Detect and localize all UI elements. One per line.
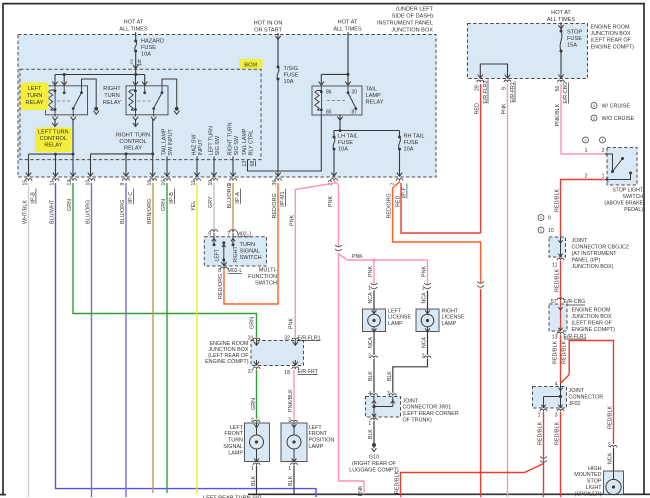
pin 15 on I/P box [25,179,32,181]
svg-text:85: 85 [326,110,332,116]
svg-text:ALL TIMES: ALL TIMES [333,27,362,33]
svg-text:T/SIG: T/SIG [284,66,299,72]
wire RED from pin 29 [480,84,482,233]
svg-text:CONNECTOR JR01: CONNECTOR JR01 [403,405,452,411]
svg-text:JOINT: JOINT [572,238,588,244]
wire: left output bus [29,153,74,155]
pin 36 on I/P box [275,179,282,181]
wire: internal bridge pins 29-9 [480,64,507,79]
svg-text:(LEFT REAR OF: (LEFT REAR OF [591,38,632,44]
svg-text:JUNCTION BOX: JUNCTION BOX [391,28,433,34]
svg-text:G10: G10 [369,455,379,461]
svg-text:HOT AT: HOT AT [124,20,144,26]
svg-text:RED/BLK: RED/BLK [555,269,561,292]
svg-text:HAZARD: HAZARD [141,39,164,45]
junction: joint connector CBGJC2 [538,215,544,221]
svg-text:RED/ORG: RED/ORG [386,193,392,218]
wire PNK/BLK to left front position lamp [293,370,295,420]
lamp: left front position lamp [281,423,307,462]
svg-text:RIGHT: RIGHT [233,246,239,263]
wire relay feed drop x=144.7 [144,75,146,86]
wire: right output bus [91,153,153,155]
svg-text:OF TRUNK): OF TRUNK) [403,418,432,424]
svg-text:ENGINE COMPT): ENGINE COMPT) [591,44,635,50]
svg-text:OR START: OR START [254,28,282,34]
pin 9 on I/P box [123,179,130,181]
svg-text:BLK: BLK [368,371,374,381]
svg-text:10A: 10A [404,146,414,152]
svg-text:TURN: TURN [27,93,43,99]
svg-text:FUSE: FUSE [338,140,353,146]
lamp: left front turn signal lamp [245,423,270,462]
svg-text:HAZ SW: HAZ SW [191,134,197,156]
svg-text:ENGINE ROOM: ENGINE ROOM [591,25,630,31]
wire RED to bottom [480,289,482,497]
svg-text:1: 1 [585,148,588,154]
junction: engine room junction box (top right) [468,24,588,79]
wire relay feed drop x=135.5 [135,75,137,86]
svg-text:PNK: PNK [352,254,363,260]
junction: engine room junction box (front lamps) [251,341,304,366]
svg-text:SIDE OF DASH): SIDE OF DASH) [392,14,433,20]
wire RED/BLK branch to high mounted stop light [561,341,613,445]
wire PNK branch to E/R front box [295,183,336,338]
svg-text:LUGGAGE COMPT): LUGGAGE COMPT) [349,468,399,474]
wire BLK left license [373,359,375,393]
label: LEFT TURN CONTROL RELAY (highlighted) [35,128,72,153]
svg-text:18: 18 [284,370,290,376]
wire bus drop x=73 [72,154,74,177]
svg-text:RED/BLK: RED/BLK [608,406,614,429]
svg-text:13: 13 [242,161,248,167]
svg-text:10A: 10A [141,51,151,57]
switch: turn signal switch box [204,237,266,266]
svg-text:LH TAIL: LH TAIL [338,134,358,140]
svg-text:1: 1 [422,286,425,292]
svg-text:LEFT: LEFT [28,86,42,92]
svg-text:CONTROL: CONTROL [40,136,67,142]
svg-text:2: 2 [422,354,425,360]
svg-text:LEFT TURN: LEFT TURN [208,126,214,156]
wire T/SIG feed [277,33,279,67]
svg-text:1: 1 [538,413,541,419]
svg-text:GRN: GRN [251,398,257,410]
svg-text:YEL: YEL [191,201,197,211]
svg-text:(AT INSTRUMENT: (AT INSTRUMENT [572,251,618,257]
svg-text:LEFT: LEFT [388,308,402,314]
legend cruise [591,103,597,109]
svg-text:BCM: BCM [244,63,257,69]
fuse: HAZARD FUSE 10A [134,40,137,43]
fuse: RH TAIL FUSE 10A [399,131,401,138]
pin 10 on I/P box [164,179,171,181]
svg-text:FUSE: FUSE [404,140,419,146]
svg-text:15A: 15A [567,43,577,49]
wire relay feed drop x=55 [54,75,56,86]
svg-text:RED/BLK: RED/BLK [555,189,561,212]
svg-text:9: 9 [208,231,211,237]
svg-text:LIGHT: LIGHT [586,485,603,491]
svg-text:1: 1 [602,174,605,180]
wire bus drop x=55.5 [55,154,57,177]
svg-text:29: 29 [475,85,481,91]
svg-text:86: 86 [326,90,332,96]
wire BLU/ORG 1 [91,183,93,497]
svg-text:CONNECTOR CBGJC2: CONNECTOR CBGJC2 [572,244,629,250]
svg-text:BLK: BLK [251,475,257,486]
svg-text:8: 8 [218,268,221,274]
svg-text:RELAY: RELAY [44,143,62,149]
svg-text:FUSE: FUSE [284,72,299,78]
svg-text:FRONT: FRONT [309,431,328,437]
relay contact (mid pin) [63,86,65,93]
svg-text:SWITCH: SWITCH [240,255,262,261]
ground G10 [372,443,376,447]
svg-text:ALL TIMES: ALL TIMES [547,17,576,23]
svg-text:BLK: BLK [387,371,393,381]
wire: left relay coil return [54,119,56,127]
wire RED/ORG pin7 [393,182,481,284]
wire GRN to left front turn signal lamp [256,370,258,420]
svg-text:2: 2 [608,443,611,449]
wire BLU/ORG 2 [125,183,127,497]
switch: stop light switch [607,148,637,186]
switch RIGHT contact [232,233,234,245]
svg-text:1: 1 [251,466,254,472]
svg-text:RED/BLK: RED/BLK [553,341,559,364]
svg-text:TAIL LAMP: TAIL LAMP [161,128,167,155]
svg-text:2: 2 [585,174,588,180]
svg-text:ENGINE COMPT): ENGINE COMPT) [572,327,616,333]
svg-text:RIGHT TURN: RIGHT TURN [227,122,233,155]
relay: tail lamp relay [312,86,362,115]
svg-text:HOT AT: HOT AT [551,10,571,16]
svg-text:10A: 10A [284,79,294,85]
wire RED/BLK JF02 pin 1 [543,412,545,497]
svg-text:NCA: NCA [608,453,614,464]
svg-text:GRN: GRN [67,199,73,211]
svg-text:INSTRUMENT PANEL: INSTRUMENT PANEL [377,21,433,27]
svg-text:RIGHT: RIGHT [442,308,459,314]
instrument panel junction box [18,35,436,178]
svg-text:TAIL: TAIL [366,87,377,93]
svg-text:4: 4 [368,391,371,397]
svg-text:SIG SW: SIG SW [215,135,221,155]
svg-text:LAMP: LAMP [309,444,324,450]
svg-text:PANEL (I/P): PANEL (I/P) [572,257,601,263]
svg-text:NCA: NCA [368,337,374,348]
svg-text:FRONT: FRONT [224,431,243,437]
svg-text:RELAY: RELAY [26,100,44,106]
switch LEFT contact [213,233,215,245]
svg-text:LAMP: LAMP [388,321,403,327]
wire BLU/WHT [56,183,317,497]
svg-text:NCA: NCA [422,292,428,303]
svg-text:10: 10 [86,180,92,186]
svg-text:JUNCTION BOX: JUNCTION BOX [572,314,613,320]
label: LEFT TURN RELAY (highlighted) [21,83,49,111]
wire BLK grounds of front lamps [256,466,258,495]
svg-text:(LEFT REAR OF: (LEFT REAR OF [572,321,613,327]
svg-text:PNK: PNK [288,318,294,329]
wire: BCM pin 13 tail lamp relay control [248,115,322,171]
wire bus drop x=28.5 [28,154,30,177]
svg-text:RELAY: RELAY [103,100,121,106]
svg-text:SIGNAL: SIGNAL [240,248,261,254]
svg-text:ALL TIMES: ALL TIMES [119,27,148,33]
wire bus drop x=90.5 [90,154,92,177]
svg-text:(UNDER LEFT: (UNDER LEFT [396,7,434,13]
relay switch arm [161,86,163,93]
pin 16 on I/P box [150,179,157,181]
wire PNK pin22 [334,181,339,247]
wire BCM pin stub x=214 [213,157,215,177]
wire WHT/BLK [28,183,30,497]
svg-text:SWITCH: SWITCH [255,281,277,287]
svg-text:CONNECTOR: CONNECTOR [569,394,604,400]
svg-text:HOT IN ON: HOT IN ON [254,21,283,27]
svg-text:PEDAL): PEDAL) [624,207,643,213]
pins 29 / 9 / 56 [477,80,484,82]
svg-text:12: 12 [67,180,73,186]
svg-text:1: 1 [288,466,291,472]
svg-text:BLK: BLK [368,429,374,439]
svg-text:BLU/ORG: BLU/ORG [227,184,233,208]
svg-text:(LEFT REAR CORNER: (LEFT REAR CORNER [403,411,459,417]
svg-text:RED/BLK: RED/BLK [395,471,401,494]
svg-text:GRN: GRN [250,317,256,329]
BCM (body control module) box [20,69,261,159]
svg-text:RED: RED [475,103,481,114]
wire: right relay coil return [135,119,137,127]
svg-text:7: 7 [227,231,230,237]
svg-text:TURN: TURN [104,93,120,99]
svg-text:GRY: GRY [208,196,214,208]
svg-text:SIGNAL: SIGNAL [223,444,243,450]
relay bottom pins [135,115,137,117]
svg-text:FUSE: FUSE [567,36,582,42]
svg-text:37: 37 [248,369,254,375]
svg-text:BLU/ORG: BLU/ORG [120,200,126,224]
svg-text:2: 2 [602,148,605,154]
wire RED/BLK from stop light switch [561,180,605,241]
wire RED/BLK JF02 pin 3 [560,412,562,497]
svg-text:RED/ORG: RED/ORG [218,274,224,299]
svg-text:HIGH: HIGH [588,466,602,472]
svg-text:GRN: GRN [161,199,167,211]
svg-text:LEFT: LEFT [215,248,221,262]
svg-text:TAIL LAMP: TAIL LAMP [242,128,248,155]
wire: right relay switch output [152,119,154,154]
svg-text:MULTI-: MULTI- [259,268,277,274]
pin 11 on I/P box [194,179,201,181]
svg-text:BLU/WHT: BLU/WHT [50,199,56,224]
svg-text:11: 11 [552,263,557,269]
lamp: left license lamp [363,309,386,332]
svg-text:NCA: NCA [368,292,374,303]
wire BLK right license [393,359,428,393]
svg-text:BLU/ORG: BLU/ORG [86,200,92,224]
svg-text:CONTROL: CONTROL [119,139,146,145]
wire GRN 2 [166,183,168,493]
fuse: STOP FUSE 15A [560,30,563,33]
svg-text:3: 3 [555,413,558,419]
switch common bar [222,241,225,244]
svg-text:PNK: PNK [328,196,334,207]
svg-text:13: 13 [552,335,558,341]
svg-text:1: 1 [368,421,371,427]
svg-text:10A: 10A [338,146,348,152]
svg-text:SWITCH: SWITCH [623,194,644,200]
svg-text:PNK: PNK [422,266,428,277]
svg-text:PNK: PNK [289,215,295,226]
svg-text:32: 32 [284,336,290,342]
svg-text:ENGINE COMPT): ENGINE COMPT) [205,359,249,365]
pin 10 on I/P box [211,179,218,181]
wire tail lamp feed [347,32,349,74]
svg-text:LICENSE: LICENSE [388,315,411,321]
wire RED/BLK to E/R-CBG [560,261,562,301]
svg-text:RIGHT TURN: RIGHT TURN [116,133,150,139]
svg-text:LAMP: LAMP [228,450,243,456]
svg-text:MOUNTED: MOUNTED [574,472,601,478]
fuse: LH TAIL FUSE 10A [333,131,335,138]
svg-text:9: 9 [548,216,551,222]
svg-text:PNK: PNK [358,485,364,496]
svg-text:ENGINE ROOM: ENGINE ROOM [572,308,611,314]
splice on PNK wire [335,245,342,251]
svg-text:BLK: BLK [288,475,294,486]
svg-text:2: 2 [368,354,371,360]
svg-text:STOP: STOP [587,479,602,485]
wire bus drop x=126 [125,154,127,177]
junction: engine room junction box (E/R-CBG) [549,304,567,331]
pin 11 on I/P box [52,179,59,181]
fuse: T/SIG FUSE 10A [277,66,280,69]
relay bottom pins [54,115,56,117]
relay coil [129,90,133,110]
svg-text:TURN: TURN [240,242,256,248]
svg-text:SIG SW: SIG SW [234,135,240,155]
wire hazard feed [135,32,137,41]
svg-text:JUNCTION BOX): JUNCTION BOX) [572,264,614,270]
wire BLU/ORG to switch [232,183,234,232]
wire BCM pin stub x=197 [196,157,198,177]
svg-text:30: 30 [352,90,358,96]
wire: tail relay sw output [339,115,341,131]
wire PNK drop left license [373,260,375,285]
wire fuse to relay bus [135,51,137,75]
wire: left relay switch output [72,119,74,154]
wire PNK from pin 9 [507,84,509,497]
svg-text:(RIGHT REAR OF: (RIGHT REAR OF [352,461,397,467]
svg-text:3: 3 [387,391,390,397]
wire RED/BLK to JF02 pin 4 [560,335,562,383]
svg-text:JF02: JF02 [569,401,581,407]
svg-text:RIGHT: RIGHT [103,86,121,92]
wire PNK to license lamps [339,253,365,495]
wire BCM pin stub x=233 [232,157,234,177]
svg-text:1: 1 [368,286,371,292]
svg-text:SW INPUT: SW INPUT [168,128,174,155]
pin 10 on I/P box [88,179,95,181]
relay box left turn relay [46,86,88,115]
svg-text:POSITION: POSITION [309,438,335,444]
pin 9 on I/P box [230,179,237,181]
svg-text:INPUT: INPUT [198,139,204,156]
svg-text:RELAY: RELAY [124,146,142,152]
relay switch arm [81,86,83,93]
svg-text:LEFT TURN: LEFT TURN [38,130,69,136]
wire BLK to G10 [373,421,375,444]
svg-text:LEFT: LEFT [230,425,244,431]
svg-text:BRN/ORG: BRN/ORG [147,199,153,224]
svg-text:2: 2 [130,60,133,66]
wire PNK/BLK from pin 56 to stop light switch [561,84,605,154]
pin 8 / M02-L [223,260,225,266]
wire RED/ORG pin36 to turn signal switch [224,183,278,304]
svg-text:9: 9 [120,183,126,186]
wire bus drop x=152.7 [152,154,154,177]
lamp: right license lamp [416,309,439,332]
wire GRN left front turn [73,183,257,338]
svg-text:(ABOVE BRAKE: (ABOVE BRAKE [604,201,643,207]
svg-text:PNK: PNK [368,266,374,277]
svg-text:RELAY: RELAY [366,100,384,106]
wire YEL [196,183,198,494]
svg-text:LAMP: LAMP [442,321,457,327]
svg-text:JUNCTION BOX: JUNCTION BOX [591,31,632,37]
wire RED pin7 [401,183,481,233]
wire GRY [213,183,215,232]
svg-text:STOP: STOP [567,30,582,36]
wire BRN/ORG [152,183,154,493]
svg-text:31: 31 [248,336,254,342]
svg-text:FUSE: FUSE [141,45,156,51]
wire BCM pin stub x=167 [166,157,168,177]
relay box right turn relay [126,86,168,115]
svg-text:HOT AT: HOT AT [338,20,358,26]
svg-text:JOINT: JOINT [403,398,419,404]
svg-text:LICENSE: LICENSE [442,315,465,321]
pin 7 on I/P box [396,179,403,181]
svg-text:PNK/BLK: PNK/BLK [288,389,294,412]
pin 22 on I/P box [331,179,338,181]
svg-text:LAMP: LAMP [366,93,382,99]
relay coil [48,90,52,110]
wire: relay supply bus [55,74,145,76]
svg-text:WHT/BLK: WHT/BLK [23,200,29,224]
svg-text:RH TAIL: RH TAIL [404,134,425,140]
wire relay feed drop x=64.2 [63,75,65,86]
svg-text:RED/ORG: RED/ORG [272,193,278,218]
wire T/SIG fuse to pin 36 [277,79,279,177]
tail lamp relay switch [347,86,349,92]
wire RED/BLK JF02 pin1 branch to left [401,464,544,498]
lamp: high mounted stop light [610,445,617,447]
wire PNK drop right license [427,260,429,285]
svg-text:(SPOILER): (SPOILER) [575,491,602,497]
splice RED/ORG to RED [477,281,484,287]
svg-text:W/ CRUISE: W/ CRUISE [602,104,631,110]
svg-text:RED/BLK: RED/BLK [562,341,568,364]
svg-text:NCA: NCA [422,337,428,348]
svg-text:LEFT: LEFT [309,425,323,431]
svg-text:JOINT: JOINT [569,388,585,394]
svg-text:STOP LIGHT: STOP LIGHT [612,188,643,194]
svg-text:TURN: TURN [228,438,243,444]
relay contact (mid pin) [144,86,146,93]
